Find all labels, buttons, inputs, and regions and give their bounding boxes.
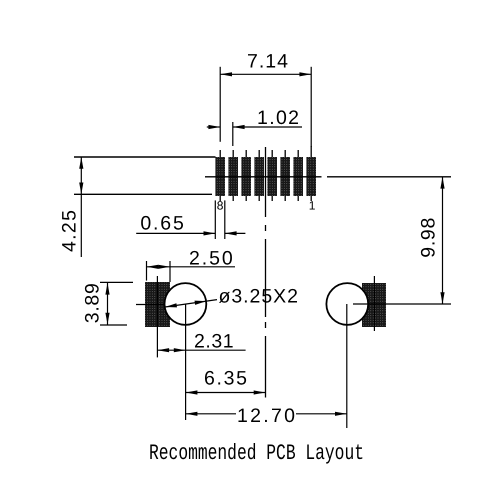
svg-text:1: 1 [309,199,316,213]
svg-text:6.35: 6.35 [204,368,247,390]
dimension 3.89 [82,282,134,325]
svg-text:0.65: 0.65 [140,213,184,235]
mounting hole H2 vertical centerline [346,304,348,428]
pad 3 [280,150,290,201]
dimension 1.02 [207,107,302,146]
mounting hole H1 vertical centerline [185,304,187,420]
mounting hole H2 circle [326,283,368,325]
pad 8 [215,150,225,201]
svg-text:12.70: 12.70 [237,405,295,427]
svg-text:7.14: 7.14 [247,50,288,72]
dimension 6.35 [186,368,266,395]
dimension 12.70 [186,405,347,427]
body outline top edge [74,156,216,158]
mounting pad M1 row centerline vertical [156,276,158,357]
main vertical centerline [265,147,267,398]
mounting hole H1 horizontal centerline [136,304,166,306]
pad 1 [306,146,316,201]
pad 7 [228,150,238,201]
mounting pad M2 (right, hatched) [362,283,386,327]
dimension 9.98 [418,177,445,304]
dimension 0.65 [136,200,245,239]
dimension 2.31 [157,331,245,353]
svg-text:2.31: 2.31 [194,331,234,353]
dimension 7.14 [220,50,311,147]
label diameter 3.25 X2 [219,286,299,308]
svg-text:9.98: 9.98 [418,218,440,258]
svg-text:ø3.25X2: ø3.25X2 [219,286,299,308]
svg-text:3.89: 3.89 [82,283,104,323]
svg-text:1.02: 1.02 [257,107,299,129]
pad 2 [293,150,303,201]
svg-text:4.25: 4.25 [59,210,81,252]
pin number 1 [309,199,316,213]
mounting pad M2 row centerline vertical [373,276,375,331]
pad 6 [241,150,251,201]
mounting hole H2 horizontal centerline [353,303,451,305]
svg-text:2.50: 2.50 [189,247,233,269]
pin number 8 [217,198,224,212]
pad row horizontal centerline [205,176,451,178]
mounting hole H1 circle [165,283,207,325]
svg-text:8: 8 [217,198,224,212]
dimension 4.25 [59,157,84,257]
pad 4 [267,150,277,201]
body outline bottom edge [74,193,212,195]
svg-text:Recommended PCB Layout: Recommended PCB Layout [149,441,364,466]
caption Recommended PCB Layout [149,441,364,466]
diameter leader for H1 [165,300,217,308]
dimension 2.50 [147,247,236,282]
mounting pad M1 (left, hatched) [145,282,170,327]
pad 5 [254,150,264,201]
